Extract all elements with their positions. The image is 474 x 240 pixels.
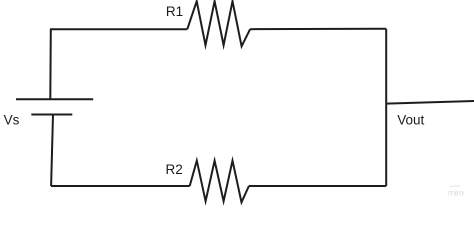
resistor R2	[190, 161, 249, 203]
wire top-left horizontal segment	[50, 28, 187, 30]
wire Vout output lead	[386, 101, 474, 104]
battery Vs positive plate	[16, 98, 93, 100]
svg-text:Vout: Vout	[397, 112, 424, 127]
label R2	[166, 162, 183, 177]
resistor R1	[187, 1, 250, 46]
wire bottom-right horizontal segment	[249, 185, 386, 187]
wire bottom-left horizontal segment	[51, 185, 190, 187]
battery Vs negative plate	[31, 114, 72, 116]
miro watermark	[448, 187, 464, 197]
wire left vertical lower segment	[51, 115, 53, 187]
svg-text:R2: R2	[166, 162, 183, 177]
label Vs	[4, 112, 20, 127]
svg-text:R1: R1	[166, 4, 183, 19]
label Vout	[397, 112, 424, 127]
svg-text:Vs: Vs	[4, 112, 20, 127]
wire top-right horizontal segment	[250, 28, 386, 31]
miro watermark smudge	[450, 185, 460, 187]
wire left vertical upper segment	[49, 29, 52, 99]
svg-text:miro: miro	[448, 187, 464, 197]
label R1	[166, 4, 183, 19]
wire right vertical segment	[385, 29, 387, 186]
